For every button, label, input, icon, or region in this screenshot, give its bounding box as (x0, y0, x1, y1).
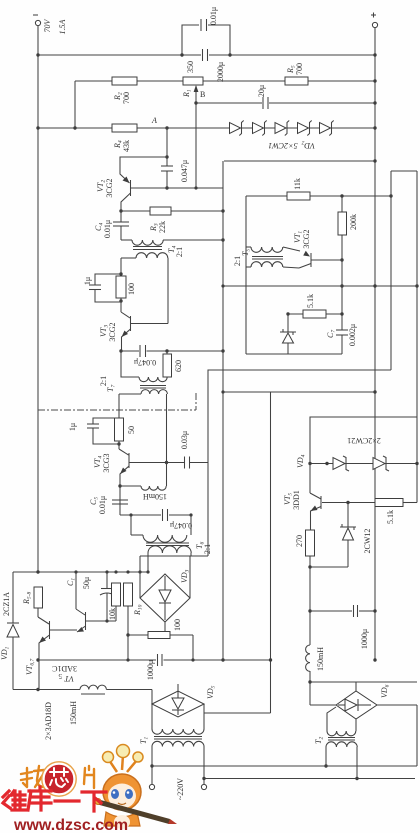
svg-text:B: B (200, 90, 205, 99)
transformer T4 primary (121, 239, 132, 241)
svg-text:0.047μ: 0.047μ (134, 358, 156, 367)
watermark weikuyixia (vector) (3, 787, 106, 811)
transformer T7 primary (139, 377, 167, 382)
terminal plus (372, 22, 377, 27)
svg-text:100: 100 (173, 619, 182, 631)
wire y515 (120, 514, 161, 516)
wire bus y128 (38, 127, 375, 129)
resistor 11k (287, 192, 310, 200)
watermark circle xin (44, 764, 75, 795)
label VT5 3AD1C (52, 664, 77, 683)
svg-text:0.047μ: 0.047μ (180, 160, 189, 182)
svg-text:2CW12: 2CW12 (363, 529, 372, 554)
wire VT1 box bottom (246, 353, 342, 355)
svg-text:700: 700 (295, 63, 304, 75)
capacitor 0.03u (184, 457, 186, 469)
capacitor 0.047u (VT4 out) (162, 509, 164, 521)
svg-text:0.047μ: 0.047μ (170, 521, 192, 530)
wire bus y766 (152, 765, 417, 767)
wire bus y778.5 (204, 778, 415, 780)
resistor 5.1k (303, 310, 326, 318)
wire bus y55 (38, 54, 201, 56)
diode zener (T5 cell) (287, 314, 289, 332)
capacitor 0.01u bypass loop (182, 25, 199, 55)
diode bridge VD6 (336, 691, 377, 719)
wire T7 sec right drop (166, 394, 168, 463)
diode zener 2CW12 (347, 503, 349, 528)
wire regulator top y572 (13, 571, 148, 573)
wire collector line y211 (119, 209, 122, 212)
svg-text:10k: 10k (108, 608, 117, 620)
capacitor 1u (VT4) (93, 418, 119, 424)
svg-text:www.dzsc.com: www.dzsc.com (13, 817, 128, 833)
svg-text:700: 700 (122, 92, 131, 104)
wire node A drop (166, 128, 168, 166)
svg-text:2:1: 2:1 (99, 376, 108, 386)
wire to T7 primary (121, 351, 139, 377)
svg-text:2:1: 2:1 (175, 247, 184, 257)
svg-text:200k: 200k (349, 214, 358, 230)
diode bridge VD3 (139, 556, 141, 598)
transformer T4 core (133, 246, 162, 248)
wire bus y286 (223, 285, 417, 287)
capacitor 1u (VT3) (95, 274, 121, 285)
wire VD3 bottom to 100 line (164, 622, 166, 635)
wire 5.1k line (288, 313, 342, 315)
svg-text:150mH: 150mH (69, 701, 78, 725)
shield dash-dot (38, 409, 196, 411)
wire bottom y689.5 (13, 689, 80, 691)
svg-text:20μ: 20μ (257, 85, 266, 97)
svg-text:2×2CW21: 2×2CW21 (347, 436, 380, 445)
svg-text:2:1: 2:1 (233, 256, 242, 266)
capacitor C5 0.01u (112, 499, 128, 501)
wire VT1 box left (245, 196, 247, 354)
svg-text:VD2 5×2CW1: VD2 5×2CW1 (268, 140, 315, 151)
wire stair right x391 (390, 171, 392, 370)
wire T7 sec left drop to VT4 (118, 394, 120, 418)
svg-text:0.01μ: 0.01μ (209, 7, 218, 25)
svg-text:2CZ1A: 2CZ1A (2, 592, 11, 616)
svg-text:0.002μ: 0.002μ (348, 324, 357, 346)
transistor VT4 3CG3 (118, 441, 120, 449)
wire VT1 base rail down (341, 260, 343, 330)
svg-text:1.5A: 1.5A (58, 19, 67, 34)
resistor 50 (115, 418, 124, 441)
mascot pen (96, 799, 170, 824)
capacitor 1000u (right) (310, 610, 352, 612)
capacitor C7 50u (106, 572, 108, 589)
transformer T6 secondary (148, 546, 191, 553)
svg-text:22k: 22k (158, 221, 167, 233)
transformer T6 core (146, 542, 189, 544)
svg-text:620: 620 (174, 360, 183, 372)
inductor 150mH (reg) (80, 685, 106, 689)
inductor 150mH (right) (306, 645, 310, 671)
diode bridge VD5 (151, 690, 153, 705)
wire 11k line y196 (246, 195, 391, 197)
svg-text:1μ: 1μ (68, 423, 77, 431)
svg-text:5.1k: 5.1k (306, 294, 315, 308)
inductor 150mH (VT4) (118, 484, 121, 487)
wire VT2 box top (224, 160, 375, 162)
svg-text:VT: VT (64, 674, 74, 683)
svg-text:3CG2: 3CG2 (105, 178, 114, 197)
svg-text:70V: 70V (43, 18, 52, 32)
resistor 270 (306, 530, 315, 556)
wire bus y81 (75, 80, 375, 82)
resistor 10k (112, 583, 121, 606)
resistor R5 700 (285, 77, 308, 85)
transistor VT7 (37, 608, 39, 617)
transistor VT1 3CG2 (303, 251, 310, 257)
wire left rail (37, 26, 39, 572)
resistor 200k (341, 196, 343, 260)
transistor VT3 3CG2 (120, 301, 122, 312)
svg-text:A: A (151, 116, 157, 125)
transformer T5 core (252, 256, 283, 258)
capacitor C7 0.002u (336, 329, 348, 331)
svg-text:3AD1C: 3AD1C (52, 664, 77, 673)
watermark badge zhao (vector) (21, 766, 44, 787)
capacitor 0.047u (VT2) (161, 165, 173, 167)
node dots y55 (36, 53, 39, 56)
transformer T2 (327, 707, 336, 731)
diode VD1 2CZ1A (12, 572, 14, 623)
diodes VD2 5x2CW1 (230, 121, 334, 151)
wire T4 sec left to 100ohm (120, 258, 122, 301)
svg-text:3DD1: 3DD1 (292, 490, 301, 510)
watermark mascot (95, 745, 177, 830)
svg-text:0.01μ: 0.01μ (103, 220, 112, 238)
transformer T5 winding 1 (246, 246, 251, 248)
wire right rail (374, 28, 376, 660)
svg-text:2000μ: 2000μ (216, 62, 225, 82)
svg-text:2×3AD18D: 2×3AD18D (44, 702, 53, 740)
wire bus y660 (38, 659, 156, 661)
svg-text:3CG3: 3CG3 (102, 453, 111, 472)
svg-text:350: 350 (186, 61, 195, 73)
svg-text:50: 50 (127, 426, 136, 434)
svg-text:270: 270 (295, 535, 304, 547)
wire diode row y463.5 (310, 463, 417, 465)
capacitor 0.047u (VT3 coupling) (139, 345, 141, 357)
svg-text:2:1: 2:1 (203, 544, 212, 554)
svg-text:50μ: 50μ (82, 577, 91, 589)
svg-text:3CG2: 3CG2 (302, 229, 311, 248)
svg-text:1000μ: 1000μ (360, 629, 369, 649)
diodes 2x2CW21 (333, 458, 345, 470)
wire VT3 collector line y351 (119, 349, 122, 352)
resistor 100 (reg) (128, 634, 193, 636)
svg-text:~220V: ~220V (176, 778, 185, 800)
svg-text:100: 100 (127, 283, 136, 295)
wire T4 sec right to VT3 base (167, 258, 169, 324)
resistor R5-8 (34, 587, 43, 608)
svg-text:1000μ: 1000μ (146, 660, 155, 680)
svg-text:0.01μ: 0.01μ (98, 496, 107, 514)
resistor R3 22k (150, 207, 171, 215)
svg-text:3CG2: 3CG2 (108, 322, 117, 341)
transformer T7 secondary (119, 393, 141, 395)
wire y713 (204, 712, 271, 714)
wire y556 to VD3 (140, 555, 208, 557)
transformer T5 winding 2 (246, 266, 251, 268)
wire down to 1000u line (309, 567, 311, 645)
transformer T6 primary (130, 515, 132, 535)
wire VT2 emitter branch (120, 157, 167, 183)
svg-text:150mH: 150mH (143, 492, 167, 501)
transformer T4 secondary (121, 257, 136, 259)
capacitor 2000u (202, 49, 204, 61)
svg-text:11k: 11k (293, 178, 302, 190)
wire bus y103 (196, 102, 262, 104)
capacitor C4 0.01u (120, 211, 122, 222)
terminals 220V (151, 747, 153, 785)
resistor R10 (124, 583, 133, 606)
capacitor 20u (262, 97, 264, 109)
wires VD6 (310, 704, 336, 706)
resistor R4 43k (112, 124, 137, 132)
transistor VT6 (75, 572, 77, 609)
watermark pian (vector) (84, 766, 94, 788)
transformer T1 (151, 704, 153, 729)
wire y567 (310, 566, 348, 568)
resistor 100 (116, 276, 126, 298)
transformer T7 core (140, 385, 166, 387)
terminal minus 70V (35, 20, 40, 25)
capacitor 1000u (reg) (157, 654, 159, 666)
resistor R2 700 (112, 77, 137, 85)
transistor VT5 3DD1 (320, 496, 322, 509)
potentiometer R1 350 (183, 77, 203, 85)
svg-text:1μ: 1μ (83, 277, 92, 285)
svg-text:0.03μ: 0.03μ (180, 431, 189, 449)
wire base 5.1k line (322, 502, 375, 504)
wire x128 y635-660 (127, 635, 129, 660)
wire stair x417 (416, 171, 418, 464)
transistor VT2 3CG2 (130, 180, 132, 196)
resistor 5.1k (VT5) (375, 499, 403, 507)
wire stair x208 (208, 370, 391, 556)
svg-text:5.1k: 5.1k (386, 510, 395, 524)
svg-text:150mH: 150mH (316, 647, 325, 671)
resistor 620 (166, 351, 168, 354)
svg-text:43k: 43k (122, 140, 131, 152)
